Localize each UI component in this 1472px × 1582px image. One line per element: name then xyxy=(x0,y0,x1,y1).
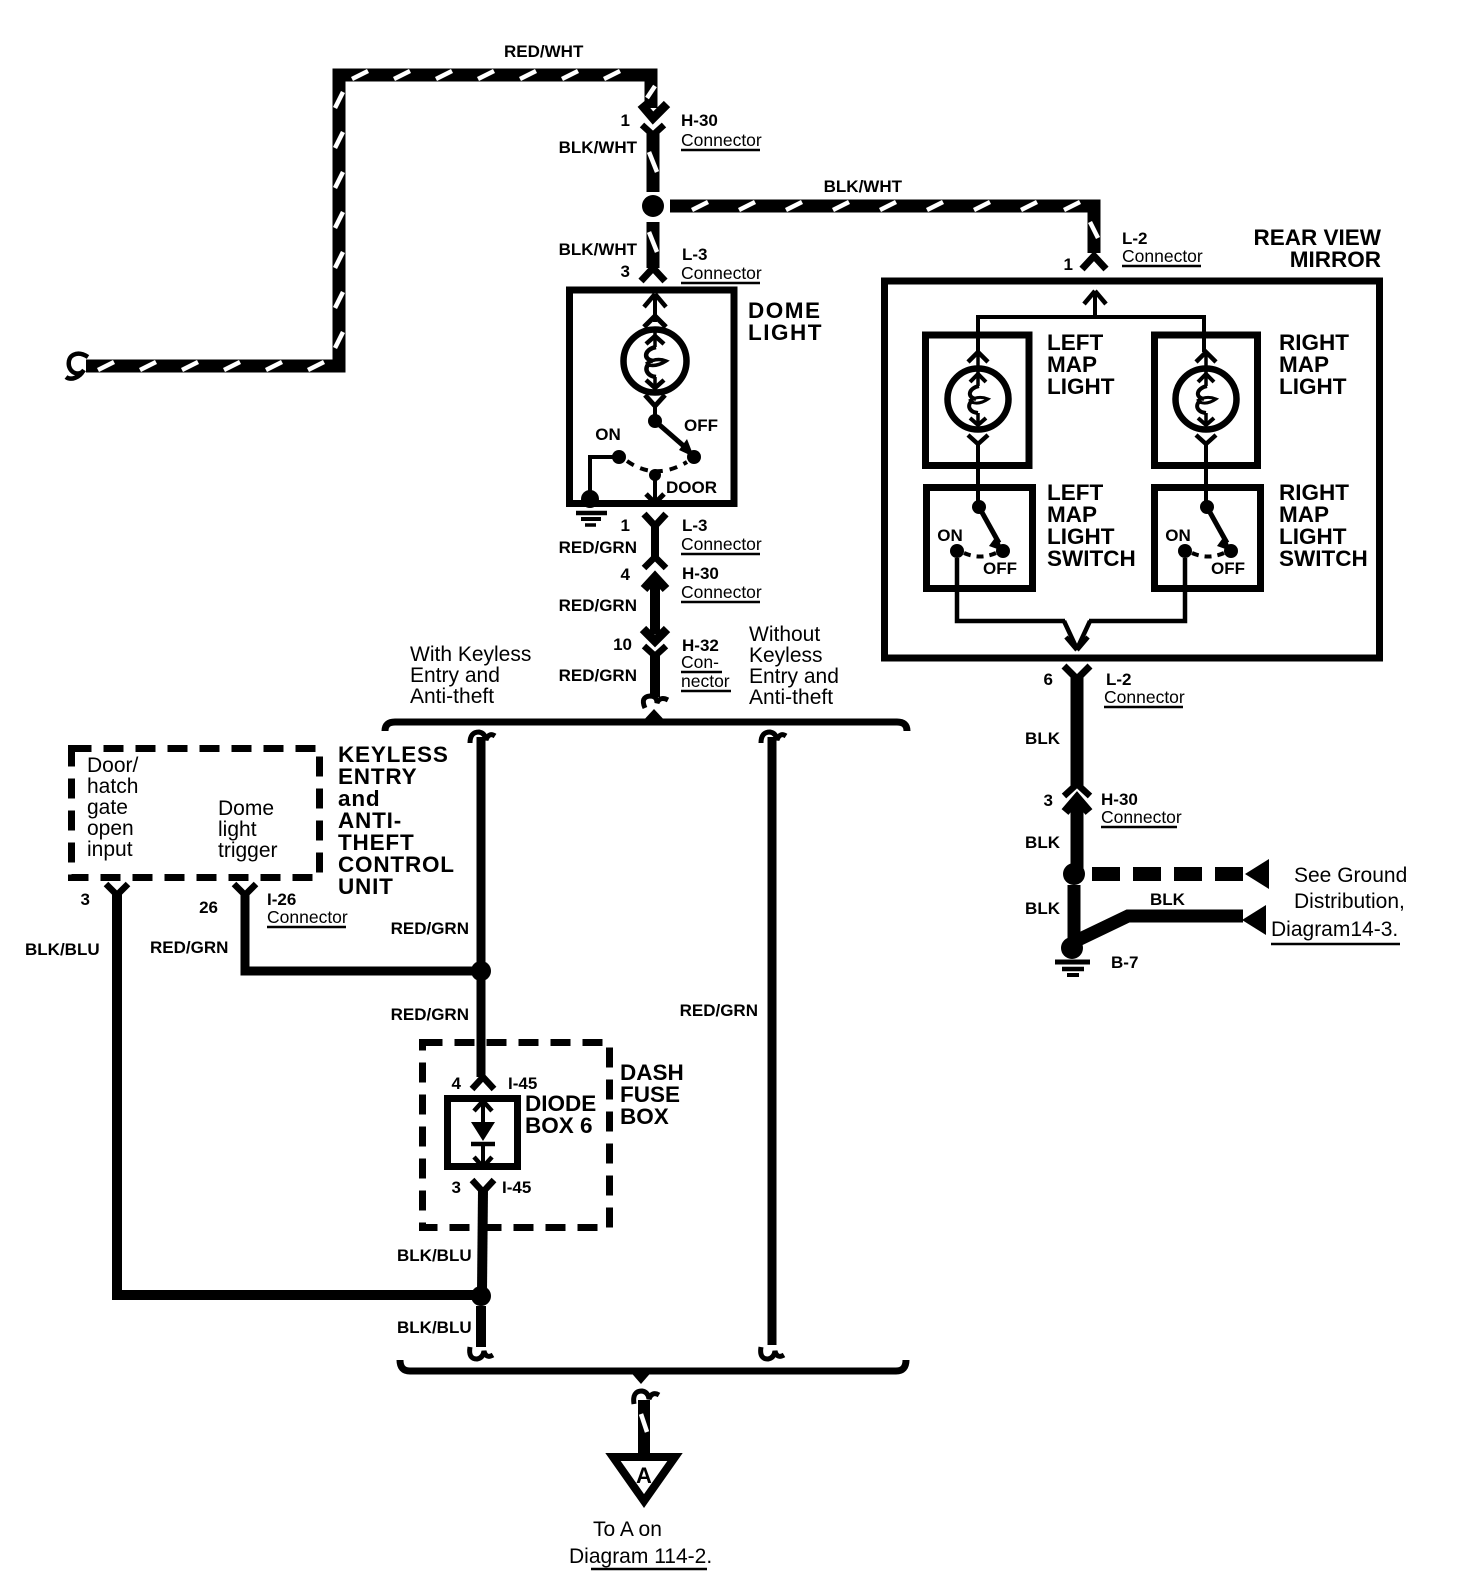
junction node (BLK/BLU splice) xyxy=(471,1286,491,1306)
svg-text:3: 3 xyxy=(621,262,630,281)
junction node (dome light / mirror split) xyxy=(642,195,664,217)
right map light switch box xyxy=(1155,488,1261,589)
connector L-2 pin 6 (female flare) xyxy=(1064,666,1090,679)
svg-text:BLK/WHT: BLK/WHT xyxy=(559,138,638,157)
arrow to Diagram 14-3 xyxy=(1242,905,1266,935)
svg-text:trigger: trigger xyxy=(218,839,278,862)
wire BLK dashed to ground distribution xyxy=(1092,867,1244,881)
wire BLK/BLU pin 3 down and across xyxy=(117,894,474,1295)
svg-text:To A on: To A on xyxy=(593,1518,662,1541)
svg-text:BLK/BLU: BLK/BLU xyxy=(25,940,100,959)
svg-text:OFF: OFF xyxy=(983,559,1017,578)
rear view mirror box xyxy=(885,281,1380,658)
label LEFT MAP LIGHT xyxy=(1047,330,1115,399)
lamp RIGHT MAP LIGHT bulb xyxy=(1176,352,1237,507)
left map light switch box xyxy=(927,488,1033,589)
label DASH FUSE BOX xyxy=(620,1060,684,1129)
svg-text:BLK/BLU: BLK/BLU xyxy=(397,1246,472,1265)
dash fuse box (dashed) xyxy=(423,1043,610,1228)
svg-text:open: open xyxy=(87,817,134,840)
svg-text:hatch: hatch xyxy=(87,775,138,798)
svg-text:3: 3 xyxy=(1044,791,1053,810)
svg-text:A: A xyxy=(636,1463,652,1488)
svg-text:ON: ON xyxy=(595,425,621,444)
svg-text:4: 4 xyxy=(621,565,631,584)
svg-text:3: 3 xyxy=(81,890,90,909)
svg-text:Connector: Connector xyxy=(1104,687,1185,707)
svg-text:RED/GRN: RED/GRN xyxy=(559,666,637,685)
wire BLK junction to ground xyxy=(1068,885,1081,940)
wire entry arrow into mirror box xyxy=(1084,291,1106,318)
svg-text:RED/GRN: RED/GRN xyxy=(150,938,228,957)
svg-text:Anti-theft: Anti-theft xyxy=(749,686,833,709)
label L-3 Connector xyxy=(681,245,762,283)
svg-text:1: 1 xyxy=(1064,255,1073,274)
connector I-26 pin 3 (female flare) xyxy=(106,884,128,895)
svg-text:See Ground: See Ground xyxy=(1294,864,1407,887)
wire BLK/BLU junction to bottom brace xyxy=(476,1306,486,1347)
wire-end hook (to A wire) xyxy=(634,1391,659,1404)
svg-text:Connector: Connector xyxy=(681,130,762,150)
svg-text:With Keyless: With Keyless xyxy=(410,643,531,666)
svg-text:Entry and: Entry and xyxy=(749,665,839,688)
note Without Keyless Entry and Anti-theft xyxy=(749,623,839,709)
connector I-45 pin 4 (female flare) xyxy=(472,1077,494,1089)
note Dome light trigger xyxy=(218,797,278,862)
svg-text:Entry and: Entry and xyxy=(410,664,500,687)
svg-text:BLK: BLK xyxy=(1150,890,1186,909)
svg-text:B-7: B-7 xyxy=(1111,953,1138,972)
svg-text:Connector: Connector xyxy=(1122,246,1203,266)
wire switches merge to exit arrow xyxy=(957,558,1185,650)
label L-2 Connector xyxy=(1122,229,1203,266)
wire branch to both map lights xyxy=(978,317,1204,352)
svg-text:Connector: Connector xyxy=(681,534,762,554)
svg-text:BLK: BLK xyxy=(1025,833,1061,852)
svg-text:10: 10 xyxy=(613,635,632,654)
svg-text:OFF: OFF xyxy=(1211,559,1245,578)
wire to off-page connector A xyxy=(641,1400,647,1453)
wire RED/GRN without-keyless branch vertical xyxy=(768,737,777,1345)
diode box 6 outline xyxy=(448,1099,518,1167)
svg-text:ON: ON xyxy=(1165,526,1191,545)
wire BLK H-30 to junction xyxy=(1071,800,1084,874)
svg-text:Con-: Con- xyxy=(681,652,719,672)
connector L-2 pin 1 (female flare) xyxy=(1082,256,1106,269)
connector L-3 pin 1 (female flare) xyxy=(644,514,666,559)
svg-text:BLK: BLK xyxy=(1025,899,1061,918)
label DIODE BOX 6 xyxy=(525,1091,596,1138)
switch dome light (ON/OFF/DOOR) xyxy=(612,414,701,481)
svg-text:26: 26 xyxy=(199,898,218,917)
svg-text:Connector: Connector xyxy=(1101,807,1182,827)
brace (bottom merge bracket) xyxy=(400,1360,906,1384)
wire BLK/WHT junction to L-3 connector xyxy=(649,222,657,268)
note To A on Diagram 114-2. xyxy=(569,1518,712,1569)
label LEFT MAP LIGHT SWITCH xyxy=(1047,480,1136,571)
wire BLK/WHT from H-30 to junction xyxy=(649,131,657,192)
svg-text:LIGHT: LIGHT xyxy=(1279,374,1347,399)
svg-text:UNIT: UNIT xyxy=(338,874,394,899)
connector H-32 pin 10 (down-arrow into flare) xyxy=(643,629,667,656)
junction node (trigger splice) xyxy=(471,961,491,981)
label H-30 Connector xyxy=(1101,790,1182,827)
svg-text:Distribution,: Distribution, xyxy=(1294,890,1405,913)
svg-text:nector: nector xyxy=(681,671,730,691)
keyless entry control unit dashed box xyxy=(72,749,320,878)
svg-text:1: 1 xyxy=(621,516,630,535)
note See Ground Distribution, Diagram14-3. xyxy=(1271,864,1407,944)
svg-text:SWITCH: SWITCH xyxy=(1047,546,1136,571)
label L-3 Connector xyxy=(681,516,762,554)
junction node (ground splice) xyxy=(1063,863,1085,885)
svg-text:input: input xyxy=(87,838,133,861)
svg-text:Door/: Door/ xyxy=(87,754,139,777)
svg-text:Without: Without xyxy=(749,623,820,646)
svg-text:Anti-theft: Anti-theft xyxy=(410,685,494,708)
label H-30 Connector xyxy=(681,111,762,150)
svg-text:LIGHT: LIGHT xyxy=(748,320,823,345)
label H-30 Connector xyxy=(681,564,762,602)
wire RED/WHT striped feed from hook to H-30 connector xyxy=(86,71,655,370)
arrow to See Ground Distribution xyxy=(1245,859,1269,889)
svg-text:RED/GRN: RED/GRN xyxy=(391,1005,469,1024)
wire BLK angled to diagram 14-3 arrow xyxy=(1078,916,1243,940)
svg-text:RED/GRN: RED/GRN xyxy=(391,919,469,938)
wire-end hook (keyless branch top) xyxy=(470,732,495,743)
wire-end hook (continuation symbol, top left) xyxy=(66,354,88,379)
label REAR VIEW MIRROR xyxy=(1253,225,1381,272)
svg-text:SWITCH: SWITCH xyxy=(1279,546,1368,571)
svg-text:Dome: Dome xyxy=(218,797,274,820)
switch LEFT MAP LIGHT SWITCH xyxy=(950,500,1010,558)
svg-text:Diagram14-3.: Diagram14-3. xyxy=(1271,918,1398,941)
svg-text:BOX 6: BOX 6 xyxy=(525,1113,593,1138)
svg-text:RED/GRN: RED/GRN xyxy=(559,596,637,615)
right map light box xyxy=(1155,335,1258,466)
label KEYLESS ENTRY and ANTI-THEFT CONTROL UNIT xyxy=(338,742,455,899)
wire-end hook (left, above bottom brace) xyxy=(470,1347,493,1359)
svg-text:3: 3 xyxy=(452,1178,461,1197)
svg-text:Connector: Connector xyxy=(681,582,762,602)
svg-text:RED/GRN: RED/GRN xyxy=(680,1001,758,1020)
svg-text:LIGHT: LIGHT xyxy=(1047,374,1115,399)
label I-26 Connector xyxy=(267,890,348,927)
svg-text:OFF: OFF xyxy=(684,416,718,435)
wire-end hook (without-keyless branch top) xyxy=(761,732,786,743)
svg-text:BLK/BLU: BLK/BLU xyxy=(397,1318,472,1337)
wire RED/GRN between H-30 and H-32 xyxy=(650,581,660,634)
wire lamp to switch common xyxy=(645,395,665,421)
label DOME LIGHT xyxy=(748,298,823,345)
connector H-30 pin 4 (flare over up-arrow) xyxy=(644,557,666,589)
dome light box xyxy=(570,290,735,504)
svg-text:DOOR: DOOR xyxy=(666,478,717,497)
lamp LEFT MAP LIGHT bulb xyxy=(948,352,1009,507)
connector H-30 pin 3 (flare over up-arrow) xyxy=(1064,784,1090,812)
svg-text:H-30: H-30 xyxy=(681,111,718,130)
ground (dome light switch) xyxy=(576,490,607,525)
svg-text:BOX: BOX xyxy=(620,1104,669,1129)
wire DOOR contact to box bottom with arrow xyxy=(646,475,664,503)
label L-2 Connector xyxy=(1104,670,1185,707)
svg-text:RED/WHT: RED/WHT xyxy=(504,42,584,61)
svg-text:BLK/WHT: BLK/WHT xyxy=(824,177,903,196)
svg-text:Diagram 114-2.: Diagram 114-2. xyxy=(569,1545,712,1568)
ground B-7 xyxy=(1055,937,1090,975)
svg-text:6: 6 xyxy=(1044,670,1053,689)
note Door/hatch gate open input xyxy=(87,754,139,861)
svg-text:gate: gate xyxy=(87,796,128,819)
connector I-45 pin 3 (female flare) xyxy=(472,1180,494,1192)
svg-text:H-30: H-30 xyxy=(682,564,719,583)
svg-text:Connector: Connector xyxy=(681,263,762,283)
svg-text:light: light xyxy=(218,818,257,841)
wire-end hook (right, above bottom brace) xyxy=(761,1347,784,1359)
svg-text:I-45: I-45 xyxy=(502,1178,531,1197)
off-page connector A (triangle) xyxy=(613,1457,675,1501)
connector L-3 pin 3 (female flare) xyxy=(641,268,665,281)
wire entry arrow into dome light xyxy=(644,294,666,327)
wire RED/GRN pin 26 to junction xyxy=(245,894,476,971)
connector H-30 pin 1 (male arrow down into female cup) xyxy=(641,104,667,135)
svg-text:L-3: L-3 xyxy=(682,245,708,264)
lamp DOME LIGHT bulb xyxy=(624,330,687,393)
svg-text:1: 1 xyxy=(621,111,630,130)
note With Keyless Entry and Anti-theft xyxy=(410,643,531,708)
wire RED/GRN from H-32 to brace xyxy=(650,652,660,697)
svg-text:RED/GRN: RED/GRN xyxy=(559,538,637,557)
left map light box xyxy=(926,335,1030,466)
svg-text:Keyless: Keyless xyxy=(749,644,823,667)
svg-text:BLK: BLK xyxy=(1025,729,1061,748)
diode (in diode box 6) xyxy=(471,1101,495,1167)
svg-text:ON: ON xyxy=(937,526,963,545)
wire BLK L-2 to H-30 xyxy=(1071,677,1084,786)
wire ON contact to ground xyxy=(590,457,619,497)
svg-text:4: 4 xyxy=(452,1074,462,1093)
wire BLK/WHT striped to rear view mirror xyxy=(670,202,1098,253)
label RIGHT MAP LIGHT xyxy=(1279,330,1349,399)
svg-text:L-3: L-3 xyxy=(682,516,708,535)
wire RED/GRN keyless branch vertical xyxy=(477,737,486,1077)
wire-end hook above brace xyxy=(643,696,668,708)
switch RIGHT MAP LIGHT SWITCH xyxy=(1178,500,1238,558)
svg-text:MIRROR: MIRROR xyxy=(1290,247,1381,272)
svg-text:BLK/WHT: BLK/WHT xyxy=(559,240,638,259)
svg-text:Connector: Connector xyxy=(267,907,348,927)
label RIGHT MAP LIGHT SWITCH xyxy=(1279,480,1368,571)
brace (top split bracket) xyxy=(385,709,907,731)
label H-32 Connector xyxy=(681,636,731,691)
connector I-26 pin 26 (female flare) xyxy=(234,884,256,895)
wire BLK/BLU diode to junction xyxy=(482,1190,483,1291)
